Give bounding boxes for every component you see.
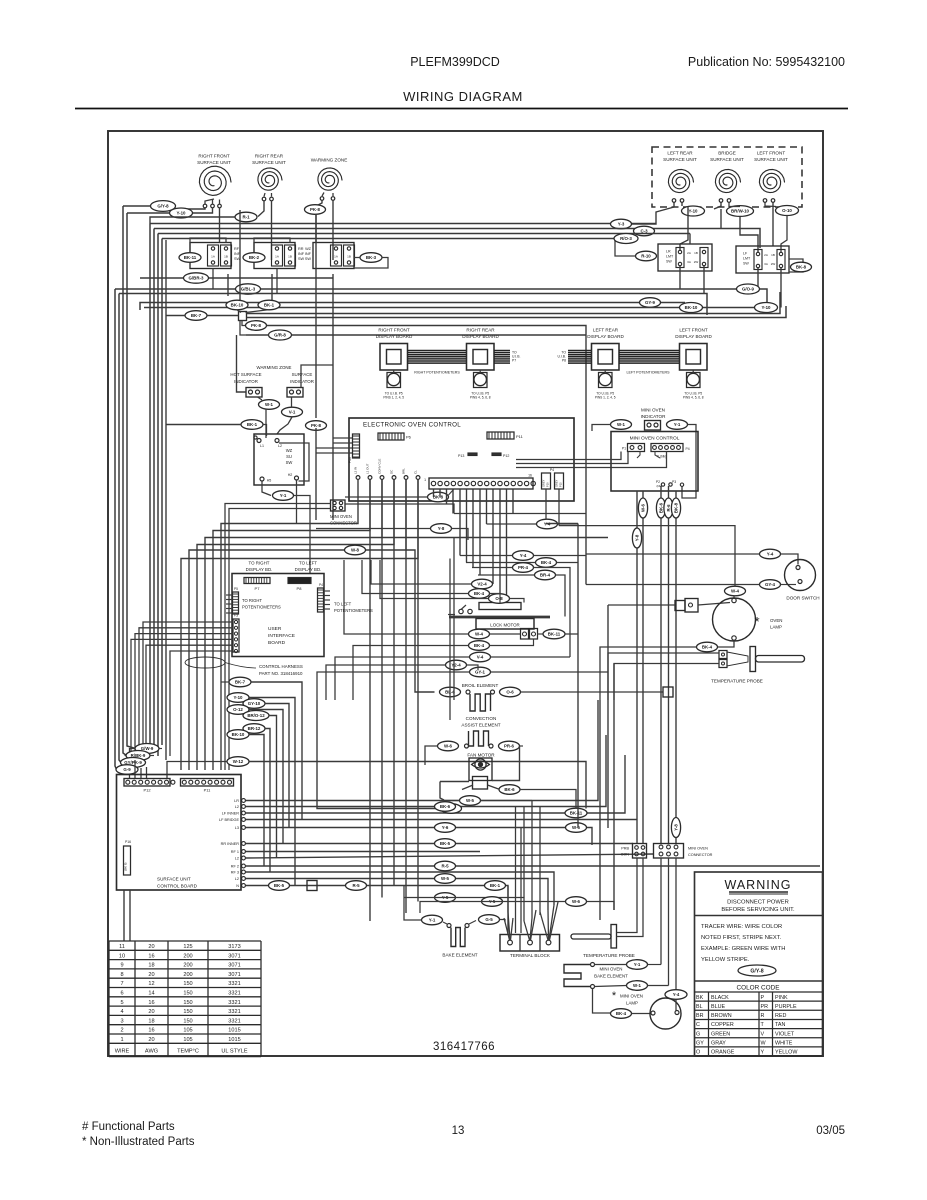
svg-text:11: 11 [119,944,125,950]
svg-text:BROWN: BROWN [711,1013,732,1019]
wire col 709 [249,710,283,844]
svg-text:1B: 1B [347,255,351,259]
svg-text:DISPLAY BOARD: DISPLAY BOARD [376,334,413,339]
oval G/W-9 [135,744,159,754]
oval Y-8 mid [431,524,452,534]
wire P5 leads [226,594,233,596]
wire EOC pin6 down [417,480,419,902]
oval W-4 lock [469,629,490,639]
svg-text:BK-10: BK-10 [232,732,245,737]
lock motor pins [521,629,529,640]
wire col 728 [265,729,270,873]
svg-text:TO LEFT: TO LEFT [334,602,352,607]
oval G/BL-3 [236,284,261,294]
svg-text:G-5: G-5 [485,917,493,922]
lamp socket [675,601,685,611]
oval stack 808 [435,802,456,812]
bridge terminals [719,199,723,203]
svg-text:1015: 1015 [228,1028,240,1034]
bridge surface unit coil [715,170,740,193]
svg-text:BK-7: BK-7 [191,313,202,318]
wire bundleB v2 [153,229,155,753]
svg-text:2W: 2W [771,262,776,266]
svg-text:R: R [761,1013,765,1019]
svg-text:W-1: W-1 [265,402,274,407]
mini oven bake coil [564,965,591,987]
svg-text:Y: Y [761,1050,765,1056]
wire gy4 door [586,584,760,586]
convection terminals [465,744,469,748]
SUCB P12 connector [124,779,170,787]
convection coil [469,731,489,746]
wire probe left 2 [614,664,719,701]
svg-text:BLUE: BLUE [711,1004,725,1010]
svg-text:BK-10: BK-10 [685,305,698,310]
wire c2 y4 [460,555,513,557]
oval Y-4 p15 [537,519,558,529]
svg-text:P4: P4 [550,468,554,472]
svg-text:O-6: O-6 [506,690,514,695]
oval Y-1 wz [273,491,294,501]
wire right vert 586 [585,420,587,585]
electronic oven control box [349,418,574,501]
oval Y-8 vertical [632,528,641,548]
wire MOC internal [637,452,640,459]
svg-text:PLEFM399DCD: PLEFM399DCD [410,55,500,69]
svg-text:L2: L2 [235,805,239,809]
svg-text:P: P [761,995,765,1001]
lower probe shaft [571,934,611,939]
wire bundleA v3 [123,206,127,756]
EOC P6 connector [378,433,404,440]
svg-text:SU: SU [286,454,292,459]
oval O-10 [776,206,799,216]
svg-text:L2: L2 [235,877,239,881]
wire EOC strip drop 3 [452,489,454,514]
svg-text:L2: L2 [278,444,282,448]
wire SUCB N [246,886,509,936]
svg-text:BR/O-12: BR/O-12 [247,713,265,718]
svg-text:LF INNER: LF INNER [222,812,240,816]
wire V-1 link [291,397,293,407]
svg-text:P10: P10 [546,482,550,487]
UIB P8 connector [288,578,311,584]
wire mob to lamp [593,989,611,1014]
svg-text:LF BRIDGE: LF BRIDGE [219,818,240,822]
svg-text:CONTROL HARNESS: CONTROL HARNESS [259,664,303,669]
right front surface unit terminals [203,204,207,208]
wire BK-10 into node [237,310,241,313]
oval BK-1 junction [258,300,280,310]
wire c2 pr4 [472,567,513,569]
wire W-1 to wz switch [265,409,267,438]
svg-text:BK-8: BK-8 [433,495,444,500]
left rear terminals [672,199,676,203]
svg-text:*: * [754,614,759,629]
wire LF limit right loop [789,259,803,272]
svg-text:200: 200 [183,972,192,978]
wire WZ lead left [316,200,322,206]
wire run 897 [404,898,524,922]
wire SUCB RF3 [246,872,555,905]
svg-text:CONVECTION: CONVECTION [466,716,497,721]
wire fan right [520,790,576,809]
svg-text:200: 200 [183,963,192,969]
wire bridge right lead [729,203,740,207]
wire o-8 [380,560,489,599]
wire gw9 [159,748,162,750]
svg-text:V-1: V-1 [289,410,296,415]
surface unit control board box [117,775,242,891]
wire sw2 loop top [254,238,290,253]
mini oven connector upper [331,500,346,511]
svg-text:WHITE: WHITE [775,1041,793,1047]
svg-text:P7: P7 [255,586,261,591]
svg-text:BL: BL [696,1004,703,1010]
svg-text:TEMPERATURE PROBE: TEMPERATURE PROBE [583,953,635,958]
wire y4 door [586,553,760,555]
svg-text:BK-1: BK-1 [247,422,258,427]
svg-text:DOOR SWITCH: DOOR SWITCH [786,596,819,601]
wire col 682 left [221,681,229,683]
wire lower probe cable [617,858,638,933]
svg-text:PK-8: PK-8 [251,323,262,328]
svg-text:UL STYLE: UL STYLE [221,1049,247,1055]
oval G-5 bake [479,915,500,925]
wire w5 [444,800,460,802]
svg-text:W-1: W-1 [633,983,642,988]
wire col 715 [269,716,277,859]
svg-text:V-4: V-4 [477,655,484,660]
svg-text:L3: L3 [235,826,239,830]
wire MOC drop 3 [660,486,662,843]
svg-text:TO LEFT: TO LEFT [299,561,317,566]
svg-text:RED: RED [775,1013,786,1019]
svg-text:W-6: W-6 [572,899,581,904]
svg-text:1B: 1B [771,253,775,257]
svg-text:GY: GY [696,1041,704,1047]
svg-text:WIRE: WIRE [115,1049,130,1055]
svg-text:P13: P13 [458,454,464,458]
warning divider 1 [695,915,823,917]
svg-text:9: 9 [120,963,123,969]
junction node [239,312,247,321]
terminal block [500,935,560,952]
svg-text:WARMING ZONE: WARMING ZONE [257,365,292,370]
svg-text:TERMINAL BLOCK: TERMINAL BLOCK [510,953,551,958]
wz switch pins bottom [260,477,264,481]
oval BK-10 right [680,303,703,313]
wire R-10 left [615,239,636,257]
wire RF lead down [219,208,221,243]
oval W-1 wz [259,400,280,410]
svg-text:3173: 3173 [228,944,240,950]
svg-text:INDICATOR: INDICATOR [290,379,314,384]
oval Y-4 door [760,549,781,559]
svg-text:Publication No: 5995432100: Publication No: 5995432100 [688,55,845,69]
wire right front unit leads [205,199,214,204]
wire LR unit right lead down [681,203,683,207]
oval stack 897 [435,893,456,903]
oval BK-6 vertical [656,498,665,518]
oval BK-8 mid [428,492,449,502]
wire gy-1 [317,672,470,700]
wire EOC strip drop 5 [466,489,468,563]
oval R-5 n [346,881,367,891]
svg-text:W-6: W-6 [572,825,581,830]
svg-text:G/O-9: G/O-9 [742,287,755,292]
svg-text:Y-8: Y-8 [635,534,640,541]
oval W-1 moi [611,420,632,430]
wire LR sw drop1 [679,266,681,289]
oval W-6 conv [438,741,459,751]
oval Y2-4 [446,660,467,670]
svg-text:CONNECTOR: CONNECTOR [688,853,713,857]
svg-text:PR-4: PR-4 [518,565,529,570]
svg-text:150: 150 [183,981,192,987]
wire conv right [520,745,524,747]
wire node right long 2 [247,306,787,318]
svg-text:PINS 1, 2, 4, 5: PINS 1, 2, 4, 5 [383,396,404,400]
svg-text:6: 6 [120,991,123,997]
svg-text:F3: F3 [234,614,238,618]
wire SUCB LF BRIDGE [246,819,638,821]
svg-text:16: 16 [148,1028,154,1034]
bake element terminals [447,924,451,928]
wire w6 bottom [420,902,566,914]
UIB F3 connector [233,619,239,652]
oval BL-6 [440,687,461,697]
svg-text:RIGHT REAR: RIGHT REAR [255,154,284,159]
svg-text:TO RIGHT: TO RIGHT [249,561,270,566]
wire 278 line [140,277,333,279]
wire BK-7 to bundle [166,240,185,760]
oval BR/O-12 col [243,711,269,721]
svg-text:R-5: R-5 [352,883,360,888]
svg-text:16: 16 [528,474,532,478]
svg-text:ASSIST ELEMENT: ASSIST ELEMENT [461,723,500,728]
wire RR oval to bundle [150,217,235,224]
wire broil left [406,550,435,692]
user interface board box [232,574,324,657]
svg-text:105: 105 [183,1037,192,1043]
svg-text:BK-4: BK-4 [474,591,485,596]
wire BK-1 into node [246,310,269,313]
svg-text:SW: SW [298,257,305,261]
svg-text:3071: 3071 [228,963,240,969]
wire wz ind left loop [237,335,247,392]
svg-text:BK-5: BK-5 [440,841,451,846]
svg-text:20: 20 [148,944,154,950]
wire Y-1 right [294,496,310,574]
svg-text:BEFORE SERVICING UNIT.: BEFORE SERVICING UNIT. [721,907,795,913]
svg-text:1B: 1B [288,255,292,259]
svg-text:LR: LR [666,250,671,254]
svg-text:R-6: R-6 [666,504,671,512]
control harness ellipse [185,657,225,668]
svg-text:RF 1: RF 1 [231,850,239,854]
wire r6 left [317,700,441,809]
wire w-4 r [490,633,521,635]
svg-text:BK-1: BK-1 [490,883,501,888]
svg-text:LEFT POTENTIOMETERS: LEFT POTENTIOMETERS [626,371,670,375]
oval Y-1 moi [667,420,688,430]
svg-text:W-8: W-8 [351,548,360,553]
wire below SUCB 1 [123,890,125,941]
svg-text:1A: 1A [334,255,338,259]
svg-text:BK-10: BK-10 [231,303,244,308]
svg-text:16: 16 [148,953,154,959]
svg-text:TAN: TAN [775,1022,785,1028]
wire EOC left pin 5 route [189,480,406,771]
temp probe connector [719,651,727,659]
oval BK-4 b [469,641,490,651]
svg-text:GY-9: GY-9 [645,300,656,305]
svg-text:WARNING: WARNING [725,878,792,892]
svg-text:BK-8: BK-8 [796,265,807,270]
hot surface indicator [246,388,262,398]
wire P10 drop [545,489,547,520]
svg-text:RIGHT FRONT: RIGHT FRONT [378,328,409,333]
svg-text:BK-2: BK-2 [249,255,260,260]
oval W-6 vertical [638,498,647,518]
wire run 864 [539,807,541,916]
svg-text:EXAMPLE: GREEN WIRE WITH: EXAMPLE: GREEN WIRE WITH [701,946,785,952]
svg-text:POTENTIOMETERS: POTENTIOMETERS [334,608,373,613]
warming zone terminals [320,197,324,201]
wire conv left [425,746,438,765]
wire node right long 1 [247,292,781,314]
svg-text:2A: 2A [687,251,691,255]
svg-text:SURFACE UNIT: SURFACE UNIT [157,877,191,882]
svg-text:W-6: W-6 [641,503,646,512]
wire bk4 lamp [632,1013,651,1015]
wire EOC left pin 1 route [221,480,358,771]
svg-text:BK-6: BK-6 [504,787,515,792]
svg-text:13: 13 [452,1125,465,1137]
temp probe cable [727,652,748,666]
svg-text:VIOLET: VIOLET [775,1031,795,1037]
svg-text:PINK: PINK [775,995,788,1001]
wire mid bus 2 [119,294,707,316]
svg-text:DISPLAY BOARD: DISPLAY BOARD [462,334,499,339]
wire right vert 608 [607,605,609,828]
wire col 761 [249,762,586,809]
svg-text:Y-10: Y-10 [233,695,243,700]
svg-text:SW: SW [286,460,293,465]
oval Y-10 right [682,206,705,216]
svg-text:4: 4 [120,1009,123,1015]
svg-text:1: 1 [424,478,426,482]
svg-text:LMT: LMT [743,257,751,261]
svg-text:Y-1: Y-1 [634,962,641,967]
oval Y-5 bottom [482,897,503,907]
svg-text:Y-8: Y-8 [438,526,445,531]
SUCB P11 connector [181,779,234,787]
fan motor base [473,777,488,790]
svg-text:SURFACE: SURFACE [292,372,313,377]
svg-text:P8: P8 [297,586,303,591]
oval BK-10 col [227,730,249,740]
oval BR-4 c2 [535,570,556,580]
oval BK-5 n [269,881,290,891]
svg-text:BK-3: BK-3 [366,255,377,260]
wire probe left 1 [608,653,719,700]
wire col 734 [249,735,264,867]
svg-text:O-8: O-8 [495,596,503,601]
wire pk8 vertical [315,215,317,419]
wire EOC strip drop 8 [486,489,488,524]
svg-text:W-1: W-1 [617,422,626,427]
svg-text:INTERFACE: INTERFACE [268,633,295,639]
warming zone switch box [254,434,304,485]
oval BK-11 run [565,808,587,818]
UIB P7 connector [244,578,270,584]
wire wz right vertical [301,365,333,388]
wire P15 drop [558,489,560,526]
svg-text:L2: L2 [235,857,239,861]
svg-text:LEFT FRONT: LEFT FRONT [679,328,707,333]
ribbon cable RF-RR [408,350,468,352]
svg-text:BK-11: BK-11 [184,255,197,260]
svg-text:P11: P11 [516,434,524,439]
wire v-4 [335,657,470,700]
wire wz H5 down [262,481,271,496]
wire bundleB v3 [157,234,159,757]
wire lamp bottom left [600,647,697,700]
svg-text:SW: SW [666,260,672,264]
oval Y-1 mob [627,960,648,970]
svg-text:CONV CLE: CONV CLE [378,459,382,474]
svg-text:1B: 1B [694,251,698,255]
oven lamp [713,598,756,641]
LF limit switch [736,246,789,273]
svg-text:Y-1: Y-1 [280,493,287,498]
broil element terminals [466,690,470,694]
wire bk-4b [353,646,469,701]
wire LR lead to limit sw [680,207,688,251]
wire bake right [469,921,476,925]
svg-text:NOTED FIRST, STRIPE NEXT.: NOTED FIRST, STRIPE NEXT. [701,935,782,941]
wire EOC pin5 down [405,480,407,914]
svg-text:G/Y-8: G/Y-8 [750,968,763,974]
wire bridge left lead [714,203,721,210]
wire bus line 1 [150,223,656,225]
oval G-3 bus [634,226,655,236]
svg-text:316417766: 316417766 [433,1041,495,1053]
svg-text:H5: H5 [267,479,272,483]
svg-text:SW: SW [305,257,312,261]
svg-text:SW: SW [743,262,749,266]
wire wz H2 down [296,480,298,524]
svg-text:LAMP: LAMP [626,1001,638,1006]
svg-text:TRACER WIRE: WIRE COLOR: TRACER WIRE: WIRE COLOR [701,924,782,930]
svg-text:BK-4: BK-4 [616,1011,627,1016]
wire y2-4 r [467,665,479,670]
oval BR-12 col [243,724,265,734]
wire bundleB v1 [149,224,151,749]
wire bk8 stub [345,496,428,498]
vertical oval Y-8 r [671,818,680,838]
oval BK-4 c2 [536,558,557,568]
wire MOC left feeds [516,452,621,460]
wire node down 1 [242,321,246,326]
wire lamp bottom [718,640,734,647]
wire sw3 right loop [354,257,360,259]
svg-text:PK-8: PK-8 [311,423,322,428]
svg-text:PR-6: PR-6 [504,744,515,749]
right front surface unit coil [199,166,231,195]
